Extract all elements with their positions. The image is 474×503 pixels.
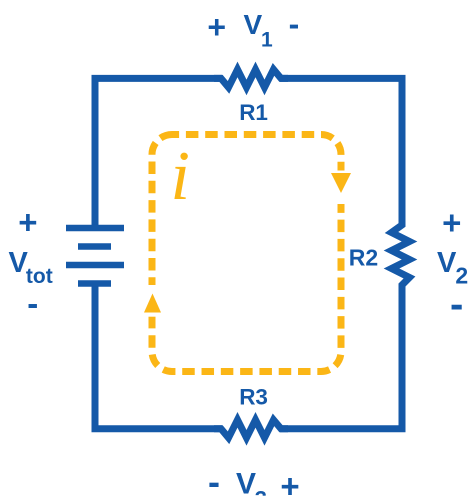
svg-text:+: +	[18, 204, 37, 241]
wire: battery positive up to top-left corner and right to R1	[95, 78, 222, 227]
svg-text:R2: R2	[349, 244, 378, 270]
svg-text:-: -	[27, 285, 38, 322]
svg-text:1: 1	[261, 29, 273, 52]
svg-text:-: -	[208, 461, 220, 502]
svg-text:V: V	[437, 247, 457, 279]
wire: R2 down to bottom-right corner and left to R3	[280, 284, 402, 429]
resistor R3	[214, 420, 288, 438]
current arrow down (right side of loop)	[331, 173, 351, 193]
battery B1 plate 1 (long, positive)	[66, 225, 124, 232]
current loop (dashed)	[152, 135, 341, 372]
dash gap at down arrow	[336, 171, 347, 205]
battery B1 plate 3 (long)	[66, 262, 124, 269]
battery B1 plate 4 (short, negative)	[78, 280, 111, 287]
svg-text:V: V	[236, 467, 256, 500]
svg-text:-: -	[289, 6, 300, 42]
battery B1 plate 2 (short)	[78, 243, 111, 250]
wire: R1 right to top-right corner and down to R2	[280, 78, 402, 226]
resistor R2	[392, 218, 410, 292]
svg-text:+: +	[280, 468, 299, 503]
dash gap at up arrow	[147, 285, 158, 317]
resistor R1	[214, 69, 288, 87]
svg-text:R1: R1	[239, 100, 268, 125]
current arrow up (left side of loop)	[144, 294, 161, 313]
svg-text:R3: R3	[239, 385, 268, 410]
svg-text:V: V	[244, 9, 263, 40]
svg-text:i: i	[171, 138, 190, 215]
svg-text:+: +	[442, 204, 461, 241]
white crop over subscript 3 bottom	[248, 496, 272, 503]
svg-text:+: +	[207, 9, 226, 45]
svg-text:-: -	[450, 282, 463, 326]
wire: R3 left to bottom-left corner and up to battery negative	[95, 282, 222, 429]
